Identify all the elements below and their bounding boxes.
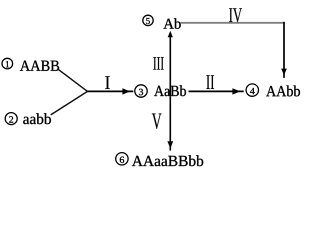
node 5 genotype Ab <box>163 18 180 29</box>
node 2 genotype aabb <box>23 113 51 124</box>
node 1 genotype AABB <box>20 61 59 71</box>
wire IV horizontal from Ab to corner <box>180 22 284 24</box>
node 2 circled label <box>5 113 17 125</box>
node 3 circled label <box>135 85 147 97</box>
label II <box>206 75 214 89</box>
label IV <box>229 8 242 22</box>
wire from aabb to junction <box>51 91 88 115</box>
wire IV vertical down to node 4 with arrow <box>281 22 287 78</box>
arrow II from node 3 to node 4 <box>189 88 244 94</box>
node 5 circled label <box>143 15 153 25</box>
node 6 genotype AAaaBBbb <box>132 155 203 166</box>
node 3 genotype AaBb <box>154 85 186 96</box>
node 4 genotype AAbb <box>266 85 300 96</box>
node 4 circled label <box>246 84 258 96</box>
arrow V from node 3 down to node 6 <box>167 97 173 151</box>
label III <box>153 57 163 69</box>
wire from AABB to junction <box>58 69 88 92</box>
node 1 circled label <box>2 58 13 69</box>
arrow I from junction to node 3 <box>88 88 134 94</box>
node 6 circled label <box>116 153 128 165</box>
label I <box>105 76 110 89</box>
arrow III from node 3 up to node 5 <box>168 31 173 97</box>
label V <box>152 114 162 129</box>
